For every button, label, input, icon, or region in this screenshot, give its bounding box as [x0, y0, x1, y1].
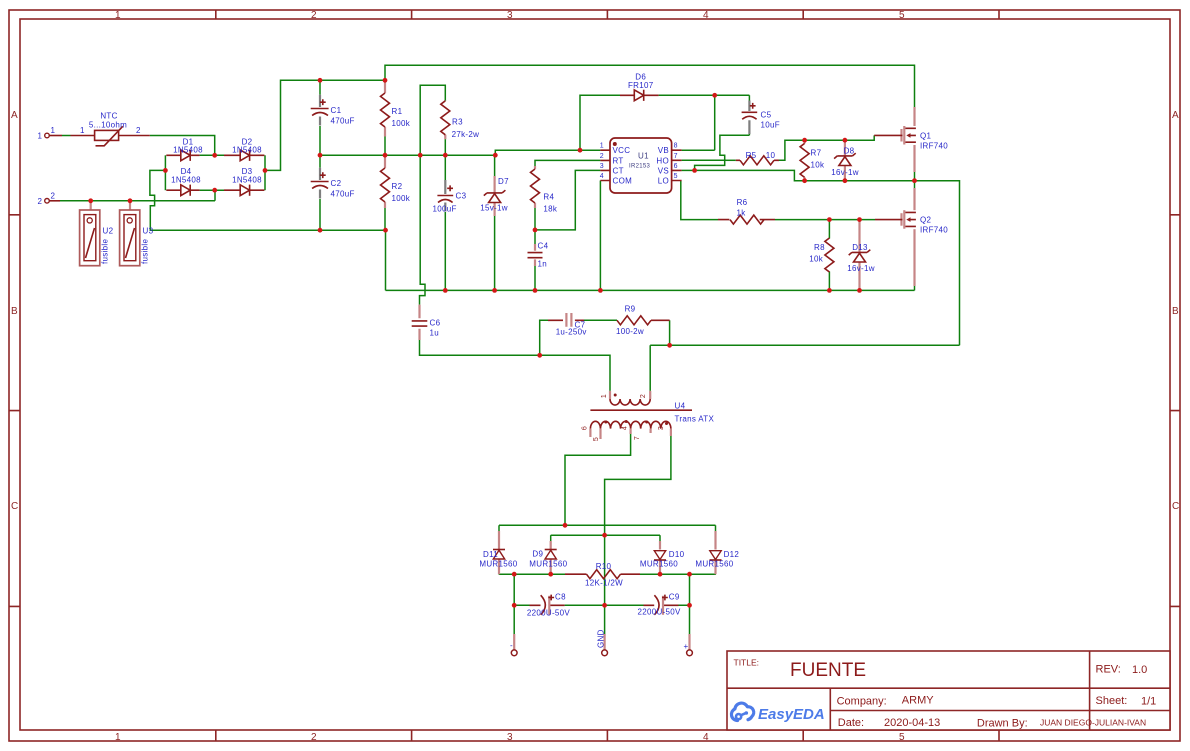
zener diode D7: [484, 155, 506, 290]
svg-text:JUAN DIEGO-JULIAN-IVAN: JUAN DIEGO-JULIAN-IVAN: [1040, 718, 1146, 728]
capacitor C9: [644, 595, 679, 615]
zener diode D8: [834, 140, 856, 181]
frame ruler ticks bottom: [216, 730, 999, 741]
svg-text:VCC: VCC: [613, 146, 631, 155]
diode D11 MUR1560: [493, 531, 505, 574]
wire bridge left vertical: [164, 155, 166, 190]
svg-text:2: 2: [38, 197, 43, 206]
wire VS node to R7 D8 row: [695, 170, 915, 180]
svg-text:C9: C9: [669, 593, 680, 602]
svg-text:R1: R1: [392, 107, 403, 116]
wire C6 bottom to transformer pin1: [420, 340, 611, 391]
capacitor C6: [412, 305, 428, 340]
svg-text:EasyEDA: EasyEDA: [758, 706, 825, 723]
wire minus terminal drop: [513, 605, 515, 634]
terminal 2: [45, 199, 60, 204]
svg-text:B: B: [11, 306, 18, 317]
svg-text:C2: C2: [331, 179, 342, 188]
wire bus3 to bus4 right: [689, 574, 691, 605]
svg-text:A: A: [1172, 110, 1179, 121]
wire half-bridge mid node to right drop: [915, 181, 960, 346]
wire bridge row2 mid: [200, 189, 224, 191]
svg-text:R7: R7: [811, 149, 822, 158]
wire rectifier bus1: [499, 524, 716, 526]
svg-text:1u-250v: 1u-250v: [556, 328, 587, 337]
svg-text:MUR1560: MUR1560: [529, 559, 567, 568]
svg-text:+: +: [684, 642, 689, 651]
svg-text:4: 4: [703, 10, 709, 21]
svg-text:1u: 1u: [430, 329, 440, 338]
fuse U2: [80, 201, 100, 266]
junction VS node: [692, 168, 697, 173]
svg-text:1: 1: [115, 732, 121, 743]
wire NTC to bridge node: [150, 136, 215, 156]
junction secondary riser nodes: [563, 523, 607, 538]
svg-text:C: C: [1172, 501, 1179, 512]
wire R4 to C4: [534, 208, 536, 230]
svg-text:3: 3: [658, 426, 665, 430]
svg-text:A: A: [11, 110, 18, 121]
svg-text:fusible: fusible: [101, 239, 110, 264]
svg-text:C8: C8: [555, 593, 566, 602]
junction VS row nodes: [802, 178, 917, 183]
wire GND riser through R10: [604, 535, 606, 605]
svg-text:2: 2: [311, 10, 317, 21]
svg-text:R6: R6: [737, 198, 748, 207]
svg-text:IRF740: IRF740: [920, 226, 948, 235]
svg-text:D10: D10: [669, 550, 685, 559]
svg-text:fusible: fusible: [141, 239, 150, 264]
svg-text:8: 8: [674, 143, 678, 150]
resistor R5: [726, 156, 779, 165]
wire D9 top stub: [550, 535, 552, 541]
wire mid bus to VCC pin: [320, 150, 600, 155]
svg-text:18k: 18k: [543, 205, 557, 214]
wire terminal2 to bridge: [60, 190, 215, 201]
resistor R1: [381, 80, 390, 155]
wire bridge row1 mid: [200, 154, 224, 156]
frame ruler ticks left: [9, 215, 20, 607]
svg-text:16v-1w: 16v-1w: [831, 168, 859, 177]
junction snubber nodes: [537, 343, 672, 358]
zener diode D13: [849, 220, 871, 291]
svg-text:VS: VS: [658, 166, 669, 175]
svg-text:10uF: 10uF: [761, 121, 780, 130]
resistor R4: [531, 166, 540, 208]
wire RT pin to R4: [535, 160, 600, 166]
svg-text:Company:: Company:: [837, 696, 887, 708]
transistor Q1 IRF740: [874, 107, 916, 181]
svg-text:2020-04-13: 2020-04-13: [884, 717, 940, 729]
svg-text:REV:: REV:: [1096, 664, 1121, 676]
svg-text:D7: D7: [498, 177, 509, 186]
svg-text:3: 3: [600, 163, 604, 170]
svg-text:2: 2: [640, 394, 647, 398]
wire HO pin to R5: [682, 159, 726, 161]
junction mid bus nodes: [318, 153, 498, 158]
wire rectifier bus2: [551, 534, 660, 536]
wire terminal1 to NTC: [62, 135, 71, 137]
resistor R8: [825, 220, 834, 291]
svg-text:16v-1w: 16v-1w: [847, 264, 875, 273]
svg-text:R8: R8: [814, 243, 825, 252]
wire COM pin to ground bus: [599, 181, 601, 291]
op-amp driver IC U1 IR2153: [600, 138, 681, 193]
capacitor C8: [530, 595, 565, 615]
wire D11 top stub: [498, 525, 500, 531]
svg-text:-: -: [510, 641, 513, 650]
svg-text:2: 2: [136, 126, 141, 135]
svg-text:Q2: Q2: [920, 216, 932, 225]
svg-text:10k: 10k: [811, 161, 825, 170]
resistor R2: [381, 155, 390, 230]
svg-text:2: 2: [311, 732, 317, 743]
svg-text:1: 1: [51, 126, 56, 135]
svg-text:VB: VB: [658, 146, 669, 155]
svg-text:R5: R5: [746, 151, 757, 160]
svg-text:5: 5: [674, 173, 678, 180]
wire LO pin to R6: [681, 181, 718, 220]
junction neutral rail nodes: [318, 228, 388, 233]
svg-text:FR107: FR107: [628, 81, 654, 90]
junction Q2 gate row nodes: [827, 217, 862, 222]
wire VS pin to node: [682, 169, 695, 171]
wire D10 top stub: [659, 535, 661, 541]
wire center tap to rectifier bus1: [565, 430, 631, 525]
svg-text:100k: 100k: [392, 119, 411, 128]
svg-text:TITLE:: TITLE:: [734, 658, 760, 668]
junction bridge and input nodes: [88, 153, 267, 203]
wire output bus3 right: [640, 573, 716, 575]
svg-text:10: 10: [766, 151, 776, 160]
svg-text:U1: U1: [638, 152, 649, 161]
svg-text:3: 3: [507, 732, 513, 743]
svg-text:Date:: Date:: [838, 717, 864, 729]
fuse U3: [120, 201, 140, 266]
junction VB node: [712, 93, 717, 98]
junction ground bus nodes: [443, 288, 862, 293]
svg-text:15v-1w: 15v-1w: [480, 204, 508, 213]
wire output bus3 left: [499, 573, 565, 575]
svg-text:100k: 100k: [392, 194, 411, 203]
thermistor NTC: [71, 126, 150, 146]
svg-text:100-2w: 100-2w: [616, 327, 644, 336]
wire bridge minus output jog to mid rail: [150, 170, 386, 290]
wire D6 cathode to C5 top: [659, 94, 750, 96]
svg-text:1N5408: 1N5408: [173, 146, 203, 155]
wire Q2 source to ground bus: [914, 286, 916, 290]
svg-text:IR2153: IR2153: [629, 164, 651, 170]
svg-text:12K-1/2W: 12K-1/2W: [585, 579, 623, 588]
svg-text:COM: COM: [613, 177, 633, 186]
svg-text:2: 2: [51, 191, 56, 200]
svg-text:IRF740: IRF740: [920, 141, 948, 150]
svg-text:Trans ATX: Trans ATX: [675, 415, 715, 424]
wire primary ground bus: [386, 289, 915, 291]
junction VCC node: [578, 148, 583, 153]
svg-text:C4: C4: [538, 242, 549, 251]
junction CT node: [533, 228, 538, 233]
svg-text:3: 3: [507, 10, 513, 21]
capacitor C7: [548, 313, 617, 327]
output terminal minus: [511, 634, 517, 656]
capacitor C1: [311, 80, 329, 155]
capacitor C2: [311, 155, 329, 230]
svg-text:C3: C3: [456, 192, 467, 201]
svg-text:470uF: 470uF: [331, 116, 355, 125]
svg-text:Q1: Q1: [920, 131, 932, 140]
svg-text:R10: R10: [596, 562, 612, 571]
wire capacitor bus4: [514, 604, 689, 606]
svg-text:1.0: 1.0: [1132, 664, 1147, 676]
svg-text:1N5408: 1N5408: [171, 176, 201, 185]
diode D12 MUR1560: [710, 531, 722, 574]
svg-text:Drawn By:: Drawn By:: [977, 718, 1028, 730]
svg-text:NTC: NTC: [100, 112, 117, 121]
svg-text:D9: D9: [532, 550, 543, 559]
svg-text:D11: D11: [483, 550, 498, 559]
svg-text:B: B: [1172, 306, 1179, 317]
resistor R7: [800, 140, 809, 181]
svg-text:U2: U2: [103, 227, 114, 236]
terminal 1: [45, 133, 62, 138]
wire snubber branch to C7: [540, 320, 548, 355]
svg-text:R3: R3: [452, 118, 463, 127]
wire R5 to Q1 gate row: [779, 135, 874, 160]
svg-text:R2: R2: [392, 182, 403, 191]
frame ruler ticks right: [1170, 215, 1180, 607]
diode D10 MUR1560: [654, 541, 666, 574]
EasyEDA logo: [731, 703, 824, 723]
svg-text:1N5408: 1N5408: [232, 146, 262, 155]
diode D9 MUR1560: [545, 541, 557, 574]
output terminal GND: [602, 634, 608, 656]
svg-text:1: 1: [115, 10, 121, 21]
capacitor C4: [528, 230, 543, 291]
resistor R3: [441, 101, 450, 156]
svg-text:1: 1: [601, 394, 608, 398]
svg-text:4: 4: [600, 173, 604, 180]
wire R6 to Q2 gate: [775, 219, 875, 221]
svg-text:1k: 1k: [736, 209, 746, 218]
svg-text:4: 4: [622, 426, 629, 430]
svg-text:C6: C6: [430, 319, 441, 328]
output terminal plus: [687, 634, 693, 656]
svg-text:GND: GND: [597, 629, 606, 648]
svg-text:1: 1: [38, 132, 43, 141]
svg-text:D8: D8: [844, 147, 855, 156]
svg-text:100uF: 100uF: [433, 205, 457, 214]
wire CT pin to R4 C4 node: [535, 170, 600, 230]
svg-text:MUR1560: MUR1560: [695, 559, 733, 568]
svg-text:D4: D4: [181, 167, 192, 176]
wire GND terminal drop: [604, 605, 606, 634]
wire mid bus to C6 with hop: [420, 155, 426, 304]
wire top HV bus to Q1 drain: [385, 65, 915, 107]
frame ruler ticks top: [216, 10, 999, 19]
svg-text:C1: C1: [331, 106, 342, 115]
svg-text:5...10ohm: 5...10ohm: [89, 120, 127, 129]
svg-text:RT: RT: [613, 156, 624, 165]
title block frame: [727, 651, 1170, 730]
wire D12 top stub: [715, 525, 717, 531]
wire VCC riser to D6 anode: [580, 95, 620, 150]
svg-text:1: 1: [80, 126, 85, 135]
svg-text:2: 2: [600, 153, 604, 160]
junction output bus3 nodes: [512, 572, 692, 577]
wire bridge right vertical: [264, 155, 266, 190]
junction Q1 gate row nodes: [802, 138, 847, 143]
svg-text:27k-2w: 27k-2w: [452, 130, 480, 139]
capacitor C5: [742, 95, 758, 135]
svg-text:470uF: 470uF: [331, 189, 355, 198]
wire R3 top link: [420, 85, 445, 155]
svg-text:C: C: [11, 501, 18, 512]
wire pin3 to rectifier bus2: [605, 432, 671, 535]
svg-text:1/1: 1/1: [1141, 696, 1156, 708]
svg-text:LO: LO: [658, 177, 669, 186]
svg-text:1N5408: 1N5408: [232, 176, 262, 185]
svg-text:6: 6: [582, 426, 589, 430]
svg-text:4: 4: [703, 732, 709, 743]
svg-text:2200U-50V: 2200U-50V: [527, 608, 571, 617]
resistor R10: [565, 570, 640, 579]
svg-text:7: 7: [634, 436, 641, 440]
diode D1: [166, 150, 199, 161]
capacitor C3: [437, 155, 453, 290]
svg-text:5: 5: [899, 732, 905, 743]
wire VB riser: [682, 95, 715, 150]
svg-text:FUENTE: FUENTE: [790, 660, 866, 681]
resistor R6: [718, 215, 775, 224]
wire bridge plus output to C1 R1 bus: [265, 80, 385, 170]
svg-text:U4: U4: [675, 402, 686, 411]
svg-text:5: 5: [593, 437, 600, 441]
diode D3: [224, 185, 264, 196]
svg-text:R9: R9: [625, 305, 636, 314]
diode D4: [166, 185, 199, 196]
svg-text:MUR1560: MUR1560: [479, 559, 517, 568]
diode D6 FR107: [620, 90, 659, 101]
svg-text:5: 5: [899, 10, 905, 21]
transistor Q2 IRF740: [875, 181, 916, 286]
wire plus terminal drop: [689, 605, 691, 634]
junction output bus4 nodes: [512, 603, 692, 608]
svg-text:2200U-50V: 2200U-50V: [638, 608, 682, 617]
transformer U4 Trans ATX: [590, 391, 692, 439]
svg-text:D3: D3: [242, 167, 253, 176]
svg-text:HO: HO: [656, 156, 669, 165]
svg-text:7: 7: [674, 153, 678, 160]
svg-text:6: 6: [674, 163, 678, 170]
resistor R9: [617, 316, 670, 325]
wire VS node jog up to C5 minus: [695, 135, 750, 170]
wire right drop to transformer pin2: [650, 345, 959, 391]
junction HV bus nodes: [318, 78, 388, 83]
svg-text:R4: R4: [543, 193, 554, 202]
svg-text:1n: 1n: [538, 260, 548, 269]
svg-text:Sheet:: Sheet:: [1096, 695, 1128, 707]
svg-text:MUR1560: MUR1560: [640, 559, 678, 568]
wire bus3 to bus4 left: [513, 574, 515, 605]
diode D2: [224, 150, 264, 161]
svg-text:U3: U3: [143, 227, 154, 236]
svg-text:D12: D12: [724, 550, 740, 559]
svg-text:CT: CT: [613, 166, 624, 175]
svg-text:10k: 10k: [809, 255, 823, 264]
wire R9 right elbow: [669, 320, 671, 345]
svg-text:1: 1: [600, 143, 604, 150]
svg-text:ARMY: ARMY: [902, 695, 934, 707]
svg-text:D13: D13: [852, 243, 868, 252]
svg-text:C5: C5: [761, 111, 772, 120]
